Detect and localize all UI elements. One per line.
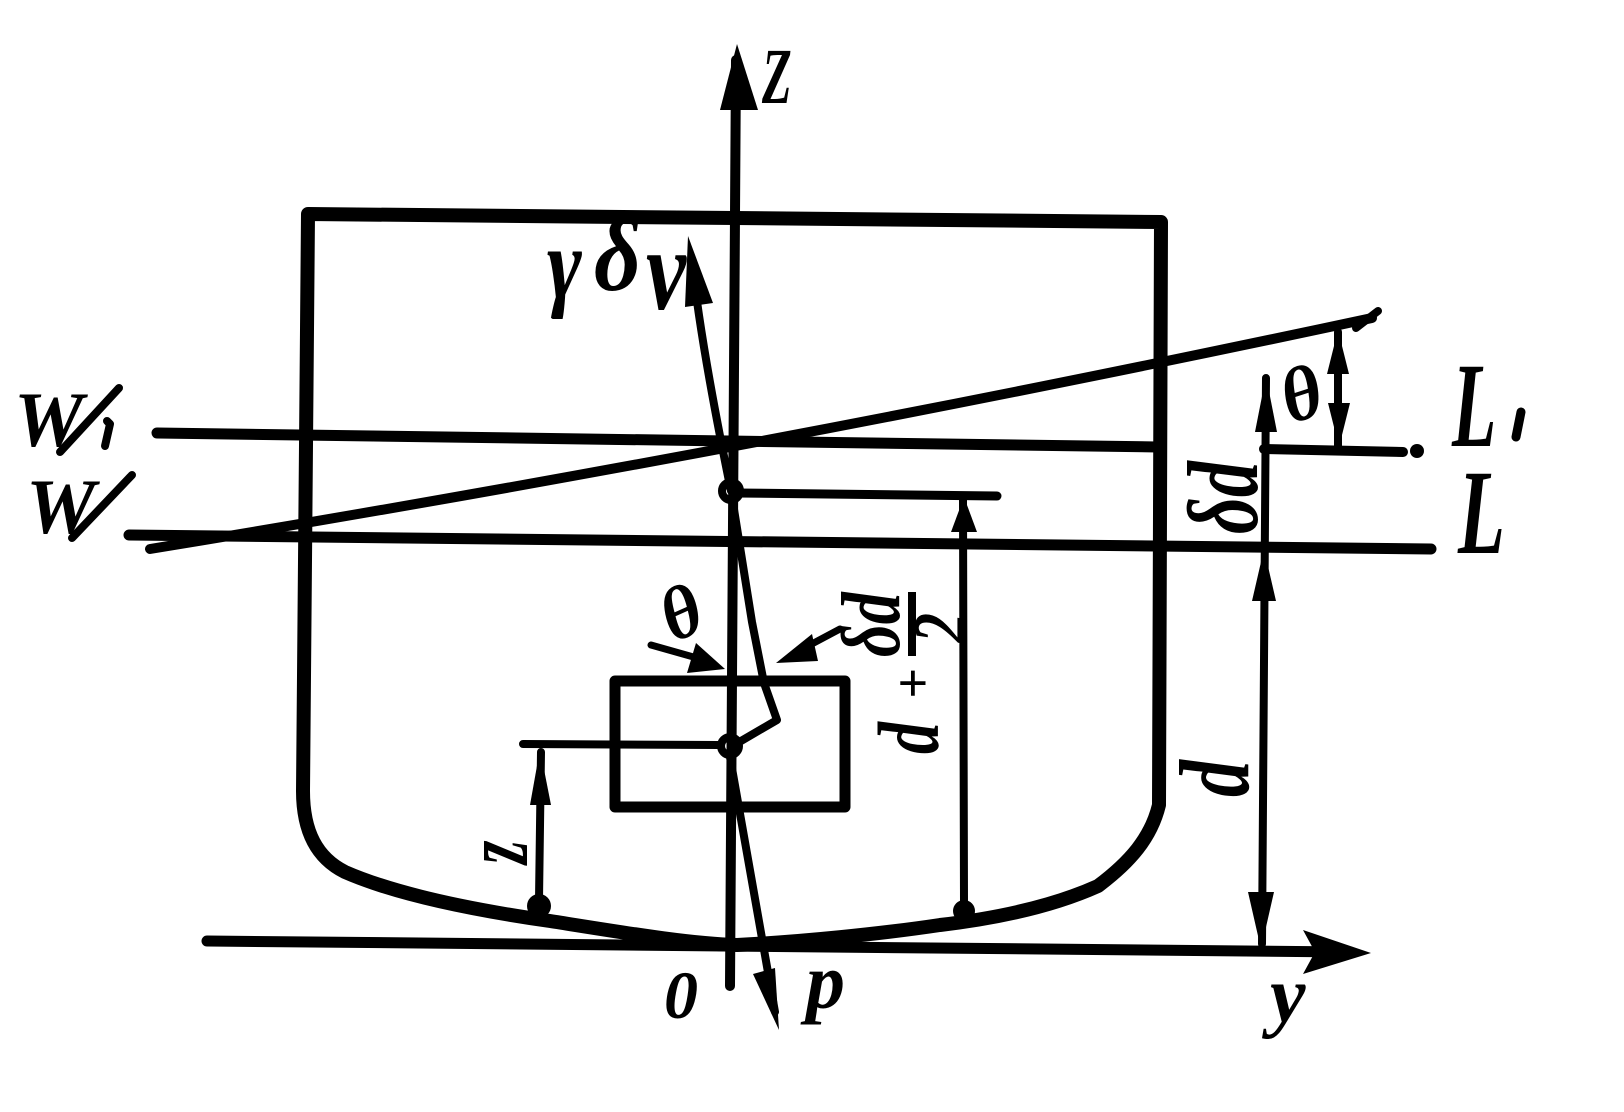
svg-text:2: 2 (898, 613, 982, 644)
svg-text:L: L (1457, 446, 1505, 580)
theta right up arrowhead (1327, 330, 1349, 374)
svg-text:d: d (862, 721, 957, 754)
label dd/2 fraction near center (rotated) (826, 591, 981, 754)
waterline L1 right stub (1264, 449, 1403, 452)
z dimension leader from node (523, 744, 718, 745)
svg-text:v: v (646, 205, 688, 335)
inclined waterline (150, 318, 1372, 549)
d+dd/2 dimension line (963, 500, 964, 903)
hull outline (303, 214, 1161, 945)
delta-d / d dimension line right (1262, 378, 1266, 944)
L1 end dot (1410, 444, 1424, 458)
p force line below node (730, 757, 775, 1012)
svg-text:δd: δd (1167, 460, 1279, 534)
gamma-delta-V arrowhead (685, 236, 713, 307)
svg-text:Z: Z (761, 33, 791, 121)
theta right down arrowhead (1328, 403, 1350, 447)
z axis (730, 60, 736, 986)
svg-text:δ: δ (594, 199, 641, 313)
svg-text:γ: γ (547, 209, 582, 321)
fraction bar (908, 592, 916, 656)
svg-text:z: z (444, 840, 547, 866)
d dimension upper arrowhead (1252, 549, 1276, 601)
gamma-delta-V force vector (692, 260, 731, 491)
z dimension up arrowhead (530, 749, 551, 805)
d+dd/2 bottom dot (953, 900, 975, 922)
svg-text:p: p (800, 938, 845, 1025)
top reference bar of d+dd/2 dimension (737, 493, 997, 496)
upper node circle (722, 482, 740, 500)
waterline WL (129, 535, 1431, 549)
theta angle arrow left of z axis (651, 645, 697, 658)
volume element rectangle (615, 681, 845, 807)
waterline W1L1 (157, 433, 1158, 447)
theta angle dimension arrow right (1334, 332, 1342, 446)
W1 subscript 1 (105, 421, 110, 446)
z dimension bottom dot (527, 894, 551, 918)
inclined waterline end tick (1356, 311, 1378, 328)
W1 label slash (60, 388, 119, 452)
label d (right, rotated) (1160, 758, 1270, 797)
delta-d top arrowhead (1255, 376, 1277, 432)
p arrowhead (753, 968, 779, 1030)
svg-text:+: + (883, 668, 943, 699)
z axis arrowhead (720, 44, 758, 110)
tilted buoyancy line through nodes (733, 503, 777, 741)
y axis (baseline) (207, 941, 1350, 952)
z dimension line (539, 752, 541, 900)
svg-text:W: W (14, 376, 88, 463)
lower node circle (721, 737, 739, 755)
d dimension lower arrowhead (1248, 892, 1274, 949)
theta angle arrow right leader from dd/2 label (808, 629, 840, 646)
d+dd/2 top arrowhead (951, 497, 977, 532)
svg-text:d: d (1160, 758, 1270, 797)
label delta-d (right, rotated) (1167, 460, 1279, 534)
L1 subscript mark (1516, 412, 1521, 437)
W label slash (72, 475, 132, 538)
svg-text:0: 0 (664, 957, 698, 1033)
y axis arrowhead (1303, 930, 1371, 974)
label z (dimension, rotated) (444, 840, 547, 866)
svg-text:W: W (26, 463, 100, 550)
